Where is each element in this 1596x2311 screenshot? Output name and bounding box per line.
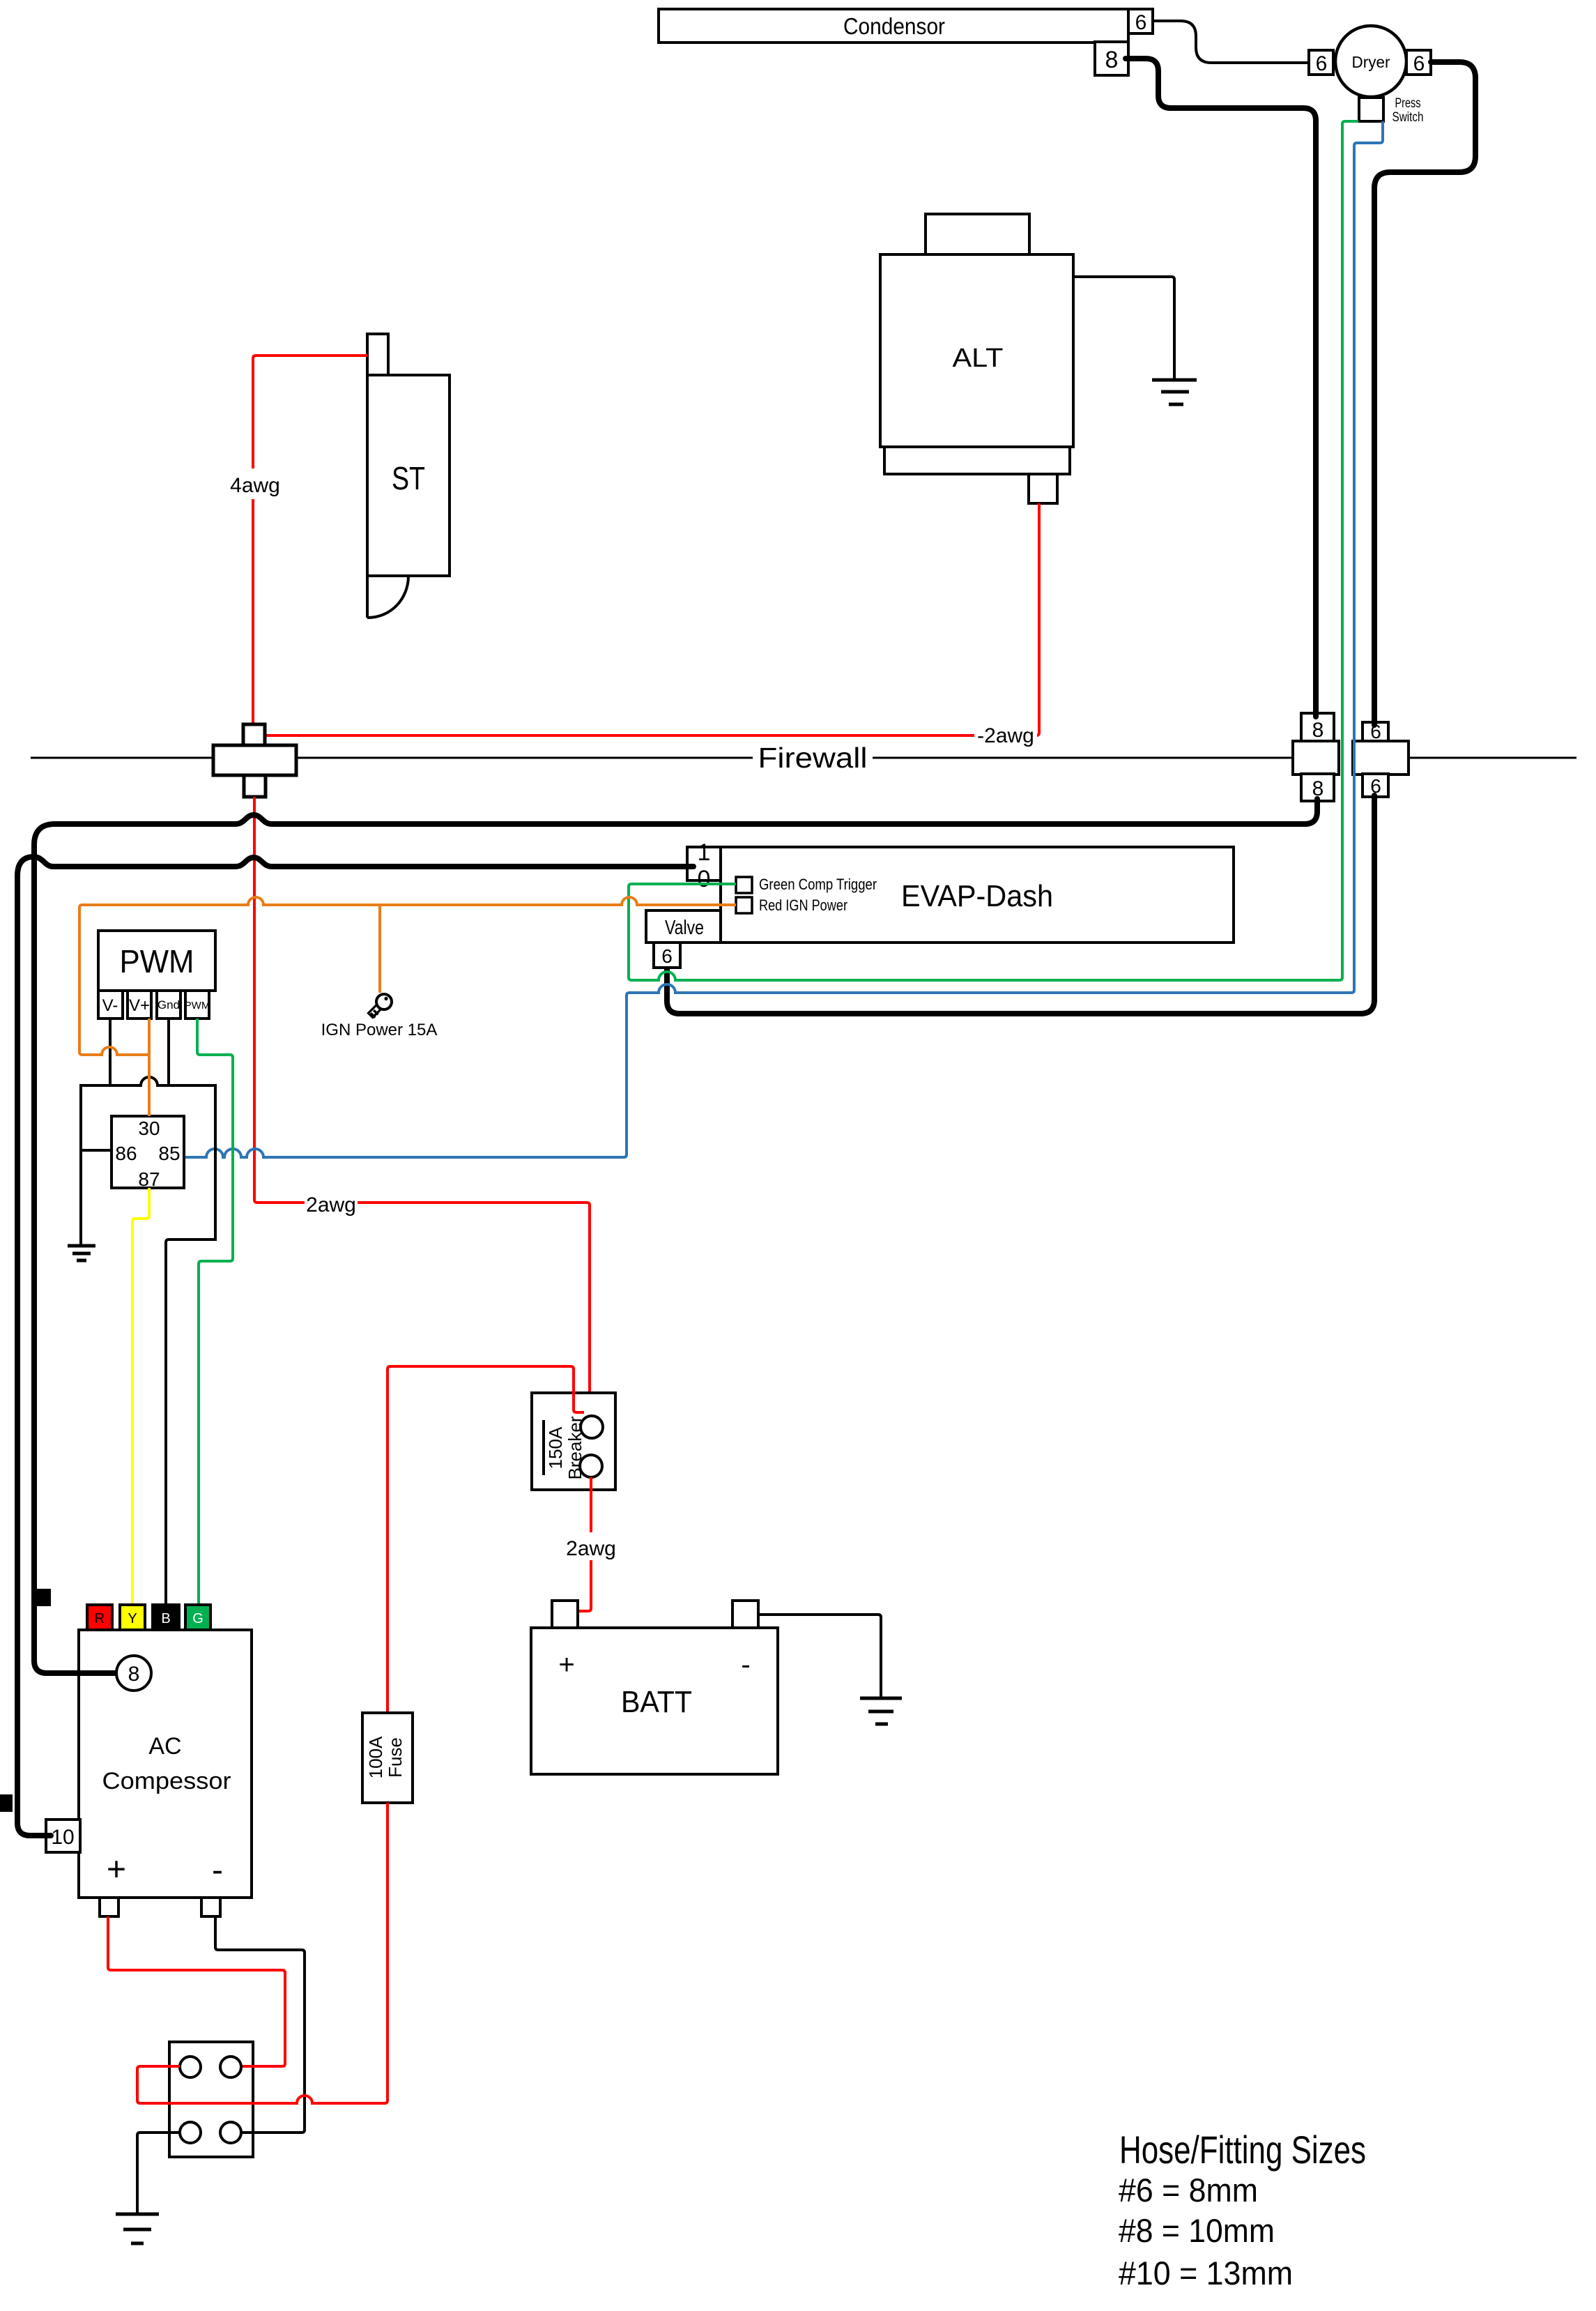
- svg-text:+: +: [558, 1649, 574, 1680]
- wire black bus to ground: [137, 2133, 180, 2213]
- svg-text:-: -: [741, 1649, 750, 1680]
- svg-text:Compessor: Compessor: [102, 1768, 231, 1794]
- ground relay: [68, 1246, 95, 1260]
- svg-text:#6 = 8mm: #6 = 8mm: [1119, 2172, 1258, 2209]
- wire red ST to firewall 4awg: [229, 356, 367, 729]
- terminal Gnd: [157, 991, 181, 1019]
- splice nub hose 8: [37, 1589, 51, 1606]
- svg-text:B: B: [161, 1611, 170, 1626]
- wire ALT ground: [1073, 277, 1174, 379]
- wire BATT negative to ground: [758, 1615, 881, 1697]
- svg-text:Gnd: Gnd: [158, 998, 180, 1012]
- svg-text:-2awg: -2awg: [977, 724, 1034, 747]
- firewall pass-through 6: [1353, 721, 1409, 797]
- press switch: [1359, 96, 1424, 125]
- wire orange IGN power: [79, 897, 736, 1116]
- svg-text:8: 8: [1312, 719, 1324, 742]
- fuse 100A: [362, 1713, 413, 1803]
- relay housing: [81, 1077, 215, 1605]
- fitting 8 condensor: [1095, 42, 1128, 75]
- svg-text:30: 30: [138, 1118, 160, 1139]
- fitting 6 dryer right: [1406, 50, 1431, 75]
- svg-text:IGN Power 15A: IGN Power 15A: [321, 1021, 438, 1039]
- breaker 150A: [532, 1393, 615, 1490]
- svg-text:R: R: [95, 1611, 105, 1626]
- pin red IGN power: [736, 897, 847, 914]
- svg-text:PWM: PWM: [185, 1000, 210, 1012]
- svg-text:Green Comp Trigger: Green Comp Trigger: [759, 876, 877, 893]
- svg-text:Valve: Valve: [665, 917, 704, 939]
- svg-text:150A: 150A: [545, 1426, 566, 1469]
- svg-text:PWM: PWM: [120, 943, 194, 979]
- svg-text:100A: 100A: [365, 1736, 386, 1778]
- ST: [367, 334, 450, 618]
- wire red bus to fuse: [137, 1803, 388, 2103]
- hose 10 end cap into EVAP port: [676, 864, 693, 869]
- BATT: [531, 1601, 778, 1774]
- ground bus: [116, 2214, 159, 2243]
- splice nub hose 10: [0, 1794, 13, 1812]
- hose 10 EVAP to compressor port 10: [17, 857, 693, 1836]
- wire red compressor positive to bus: [108, 1916, 285, 2066]
- valve: [646, 910, 721, 943]
- svg-text:6: 6: [1316, 52, 1328, 75]
- wire red fuse to breaker: [388, 1366, 584, 1713]
- svg-text:Condensor: Condensor: [843, 13, 945, 39]
- svg-text:6: 6: [661, 945, 673, 967]
- terminal G: [185, 1605, 210, 1630]
- hose 8 firewall to compressor port 8: [34, 799, 1317, 1673]
- svg-text:+: +: [107, 1852, 126, 1889]
- svg-text:EVAP-Dash: EVAP-Dash: [901, 879, 1053, 913]
- fitting 6 dryer left: [1309, 50, 1333, 75]
- port 10 EVAP: [687, 839, 721, 892]
- hose 6 valve to firewall: [667, 795, 1374, 1014]
- wire green PWM to G terminal: [197, 1019, 233, 1605]
- svg-text:ST: ST: [392, 460, 425, 496]
- svg-text:Y: Y: [128, 1611, 137, 1626]
- svg-text:BATT: BATT: [621, 1685, 692, 1719]
- svg-text:G: G: [192, 1611, 204, 1626]
- svg-text:-: -: [212, 1852, 223, 1889]
- dryer: [1335, 26, 1406, 97]
- wire red ALT to firewall 2awg: [265, 503, 1039, 747]
- bus junction block: [169, 2042, 253, 2157]
- EVAP-Dash: [721, 847, 1234, 943]
- svg-text:86: 86: [115, 1143, 137, 1164]
- svg-text:8: 8: [1105, 47, 1119, 73]
- terminal Y: [120, 1605, 145, 1630]
- terminal B: [153, 1605, 179, 1630]
- hose 6 dryer to firewall: [1374, 62, 1475, 725]
- fitting 6 valve: [654, 943, 680, 968]
- svg-text:AC: AC: [148, 1733, 181, 1760]
- terminal V-: [98, 991, 123, 1019]
- svg-text:Press: Press: [1395, 96, 1421, 111]
- relay: [112, 1116, 184, 1190]
- wire black compressor negative to bus: [215, 1916, 305, 2133]
- bus terminal circles: [180, 2057, 241, 2143]
- svg-text:Firewall: Firewall: [758, 742, 868, 774]
- terminal V+: [128, 991, 151, 1019]
- svg-text:V+: V+: [129, 996, 150, 1015]
- svg-text:#10 = 13mm: #10 = 13mm: [1119, 2255, 1293, 2291]
- svg-text:87: 87: [138, 1168, 160, 1190]
- svg-text:Red IGN Power: Red IGN Power: [759, 897, 847, 914]
- svg-text:4awg: 4awg: [230, 474, 280, 497]
- wire 86 to housing: [81, 1149, 112, 1152]
- terminal R: [87, 1605, 112, 1630]
- wire hose 6 condensor to dryer: [1153, 21, 1309, 63]
- fitting 6 condensor: [1128, 9, 1153, 34]
- ground BATT: [860, 1698, 902, 1724]
- wire red breaker to BATT 2awg: [563, 1477, 619, 1611]
- svg-text:ALT: ALT: [953, 344, 1004, 373]
- svg-text:Dryer: Dryer: [1352, 53, 1390, 71]
- PWM controller: [98, 931, 215, 991]
- svg-text:10: 10: [51, 1826, 74, 1849]
- svg-text:V-: V-: [102, 996, 118, 1015]
- svg-text:2awg: 2awg: [566, 1537, 616, 1560]
- svg-text:8: 8: [128, 1663, 140, 1686]
- svg-text:Hose/Fitting Sizes: Hose/Fitting Sizes: [1119, 2128, 1366, 2172]
- svg-text:#8 = 10mm: #8 = 10mm: [1119, 2212, 1275, 2249]
- svg-text:2awg: 2awg: [306, 1193, 356, 1216]
- wire V- to housing: [109, 1019, 112, 1085]
- key icon IGN: [369, 994, 392, 1019]
- hose 8 condensor to firewall: [1126, 59, 1316, 717]
- port 8 compressor: [77, 1656, 151, 1691]
- firewall pass-through left: [213, 724, 296, 797]
- svg-text:6: 6: [1413, 52, 1425, 75]
- svg-text:0: 0: [698, 866, 711, 892]
- svg-text:Switch: Switch: [1392, 110, 1424, 125]
- svg-text:Fuse: Fuse: [385, 1737, 406, 1778]
- wire Gnd to housing: [167, 1019, 170, 1085]
- svg-text:85: 85: [158, 1143, 180, 1164]
- wire red firewall to breaker 2awg: [254, 797, 590, 1417]
- firewall line: [31, 740, 1576, 774]
- firewall pass-through 8: [1293, 713, 1339, 801]
- AC compressor: [79, 1630, 252, 1916]
- terminal PWM: [185, 991, 210, 1019]
- note hose fitting sizes: [1119, 2128, 1366, 2291]
- svg-text:6: 6: [1135, 11, 1147, 34]
- condensor: [659, 9, 1128, 43]
- pin green comp trigger: [736, 876, 877, 893]
- wire blue press switch to relay 85: [184, 121, 1383, 1157]
- svg-text:1: 1: [698, 839, 711, 866]
- ground ALT: [1152, 380, 1197, 404]
- port 10 compressor: [42, 1820, 80, 1852]
- wire yellow relay 87 to Y terminal: [132, 1188, 149, 1605]
- wire green press switch to comp trigger: [629, 121, 1358, 980]
- ALT: [880, 214, 1073, 503]
